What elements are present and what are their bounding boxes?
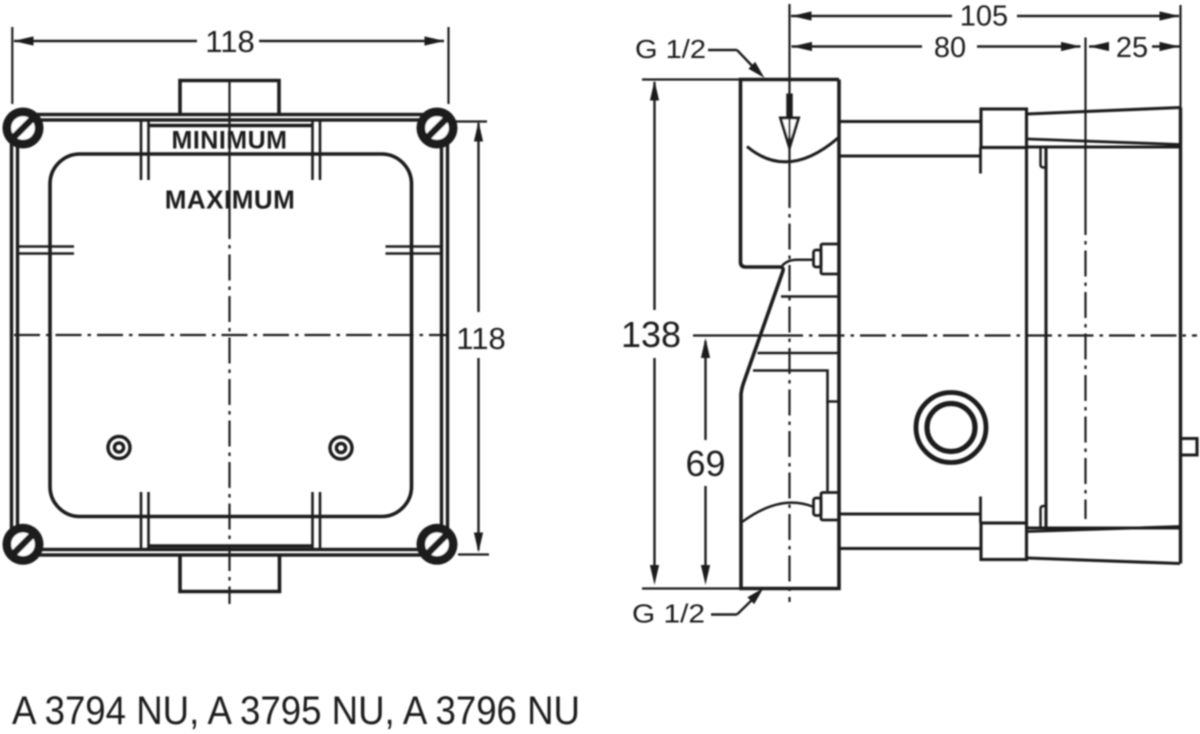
svg-text:138: 138 (621, 314, 681, 355)
svg-text:69: 69 (685, 443, 725, 484)
svg-text:118: 118 (456, 321, 505, 356)
svg-text:25: 25 (1116, 32, 1148, 64)
svg-text:80: 80 (934, 32, 966, 64)
svg-text:118: 118 (205, 24, 254, 59)
svg-text:A 3794 NU, A 3795 NU, A 3796 N: A 3794 NU, A 3795 NU, A 3796 NU (12, 689, 580, 733)
svg-text:MINIMUM: MINIMUM (172, 127, 288, 155)
svg-text:105: 105 (960, 1, 1008, 33)
svg-text:G 1/2: G 1/2 (635, 34, 706, 64)
svg-text:MAXIMUM: MAXIMUM (165, 185, 296, 215)
svg-text:G 1/2: G 1/2 (632, 599, 705, 629)
